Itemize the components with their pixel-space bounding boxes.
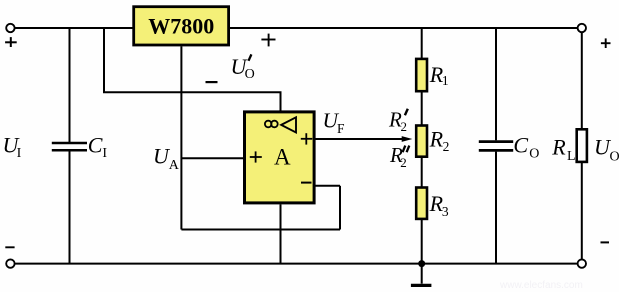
- svg-text:A: A: [169, 158, 180, 173]
- svg-text:www.elecfans.com: www.elecfans.com: [499, 280, 583, 291]
- svg-text:A: A: [274, 145, 291, 170]
- svg-text:3: 3: [442, 204, 449, 219]
- svg-text:I: I: [102, 146, 107, 161]
- svg-text:R: R: [429, 127, 444, 152]
- svg-text:R: R: [551, 134, 566, 159]
- svg-text:I: I: [17, 146, 22, 161]
- svg-text:L: L: [567, 149, 576, 164]
- svg-text:F: F: [337, 121, 345, 136]
- svg-text:C: C: [88, 132, 103, 157]
- svg-text:2: 2: [401, 119, 408, 134]
- svg-text:2: 2: [443, 139, 450, 154]
- svg-text:O: O: [529, 147, 539, 162]
- svg-text:C: C: [513, 132, 528, 157]
- svg-text:O: O: [610, 150, 619, 165]
- svg-text:2: 2: [400, 155, 407, 170]
- svg-text:O: O: [245, 67, 255, 82]
- svg-text:1: 1: [442, 73, 449, 88]
- svg-text:W7800: W7800: [148, 14, 214, 39]
